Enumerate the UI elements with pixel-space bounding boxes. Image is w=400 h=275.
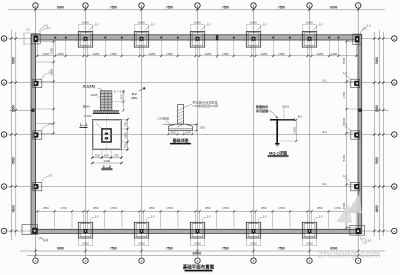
detail C right small dimension — [196, 124, 198, 130]
svg-text:1650: 1650 — [93, 52, 100, 56]
svg-text:1350: 1350 — [278, 52, 285, 56]
bottom inner chain extension line — [37, 211, 39, 229]
svg-text:J-2: J-2 — [95, 214, 99, 218]
svg-text:4800: 4800 — [375, 205, 379, 212]
svg-text:zhulong.com: zhulong.com — [318, 249, 381, 261]
top dimension tick — [84, 9, 86, 11]
bottom inner chain extension line — [251, 211, 253, 229]
svg-text:700: 700 — [124, 122, 128, 127]
axis bubble C left — [1, 132, 6, 137]
svg-text:J-2: J-2 — [207, 214, 211, 218]
grid row line C (horizontal) — [7, 82, 392, 84]
leader label J-2 bottom grid 5 — [258, 217, 262, 221]
svg-text:箍Φ8: 箍Φ8 — [83, 103, 90, 108]
svg-text:D: D — [3, 81, 5, 85]
axis bubble 7 bottom — [356, 258, 361, 263]
bottom dimension line (bay dims) — [20, 250, 385, 252]
left dimension line inner — [15, 32, 17, 236]
svg-text:B: B — [393, 185, 395, 189]
top inner chain extension line — [37, 40, 39, 57]
leader label J-1 top grid 1 — [39, 27, 44, 32]
svg-text:2400: 2400 — [138, 242, 145, 246]
left inner dimension chain line — [53, 40, 55, 134]
bottom inner chain extension line — [233, 211, 235, 229]
detail B center axis lines — [106, 117, 108, 153]
bottom dimension tick — [357, 250, 359, 252]
svg-text:J-2: J-2 — [150, 23, 154, 27]
leader label J-2 top grid 3 — [145, 26, 150, 31]
svg-text:J-1: J-1 — [367, 24, 371, 28]
bottom dimension tick — [34, 250, 36, 252]
bottom inner chain extension line — [104, 211, 106, 229]
axis bubble 7 top — [356, 3, 361, 8]
svg-text:4500: 4500 — [342, 57, 346, 64]
detail A footing pad under column — [94, 111, 119, 114]
leader label J-2 bottom grid 3 — [146, 217, 150, 221]
svg-text:J-2: J-2 — [262, 23, 266, 27]
svg-text:J-3: J-3 — [48, 174, 52, 178]
top inner chain extension line — [160, 40, 162, 57]
svg-text:6000: 6000 — [330, 6, 337, 10]
leader label left wall row B — [42, 125, 48, 130]
svg-text:4Φ25: 4Φ25 — [90, 93, 98, 97]
footing + column, top band grid 6 — [302, 31, 316, 47]
svg-text:1350: 1350 — [110, 52, 117, 56]
top inner chain extension line — [307, 40, 309, 57]
leader label J-1 top grid 7 — [362, 27, 367, 32]
bottom inner chain extension line — [345, 211, 347, 229]
svg-text:750: 750 — [114, 154, 119, 158]
bottom inner chain extension line — [355, 211, 357, 229]
leader dot at grid3 row C — [143, 87, 145, 89]
footing + column, bottom band grid 6 — [302, 222, 316, 238]
svg-text:2000: 2000 — [49, 47, 53, 54]
svg-text:J-1: J-1 — [363, 241, 367, 245]
top inner dimension chain line — [36, 55, 359, 57]
svg-text:1200: 1200 — [292, 127, 296, 134]
bottom inner chain extension line — [311, 211, 313, 229]
svg-text:J-3: J-3 — [48, 71, 52, 75]
bottom inner chain extension line — [83, 211, 85, 229]
grid line 5 (vertical axis) — [253, 9, 255, 259]
svg-text:J-2: J-2 — [94, 23, 98, 27]
svg-text:5100: 5100 — [342, 154, 346, 161]
top chain tick dot on band — [338, 37, 340, 39]
svg-text:900: 900 — [185, 130, 190, 134]
top footing mini dimension — [135, 23, 148, 25]
svg-text:A: A — [393, 229, 395, 233]
detail A right dimension — [122, 91, 124, 111]
svg-text:-1.500: -1.500 — [83, 114, 92, 118]
bottom inner chain extension line — [121, 211, 123, 229]
detail C annotation right leader texts — [183, 105, 192, 109]
corner footing grid1/top — [31, 34, 40, 44]
right dimension tick — [373, 185, 375, 187]
svg-text:J-2: J-2 — [319, 214, 323, 218]
svg-text:C10垫层: C10垫层 — [158, 116, 170, 121]
svg-text:J-2: J-2 — [318, 23, 322, 27]
svg-text:7500: 7500 — [278, 246, 285, 250]
leader label J-2 top grid 2 — [89, 26, 94, 31]
svg-text:详见结施: 详见结施 — [256, 108, 269, 113]
top dimension tick — [252, 9, 254, 11]
top inner chain extension line — [272, 40, 274, 57]
svg-text:300: 300 — [200, 126, 205, 130]
svg-text:1350: 1350 — [222, 52, 229, 56]
svg-text:2400: 2400 — [306, 242, 313, 246]
svg-text:1650: 1650 — [261, 52, 268, 56]
svg-text:500: 500 — [120, 94, 124, 99]
svg-text:7500: 7500 — [166, 246, 173, 250]
bottom foundation beam band — [31, 229, 362, 233]
svg-text:5500: 5500 — [12, 157, 16, 164]
top inner chain extension line — [328, 40, 330, 57]
svg-text:MQ-1详图: MQ-1详图 — [269, 150, 287, 156]
bottom inner chain extension line — [143, 211, 145, 229]
svg-text:39000: 39000 — [192, 252, 201, 256]
left dimension tick — [15, 185, 17, 187]
detail D vertical stem — [276, 120, 278, 144]
svg-text:2400: 2400 — [138, 20, 145, 24]
axis bubble E right — [392, 36, 397, 41]
svg-text:B: B — [3, 185, 5, 189]
bottom inner chain extension line — [54, 211, 56, 229]
svg-text:850: 850 — [93, 206, 98, 210]
top inner chain extension line — [355, 40, 357, 57]
top inner chain extension line — [139, 40, 141, 57]
leader label J-2 bottom grid 6 — [314, 217, 318, 221]
leader label right wall row B1 — [345, 178, 351, 183]
grid1 top leader 2x4 — [40, 28, 46, 32]
top chain tick dot on band — [104, 37, 106, 39]
left dimension tick — [15, 81, 17, 83]
mini dimension bracket below bottom footing grid 2 — [78, 237, 80, 246]
right dimension line 2 — [378, 30, 380, 240]
svg-text:J-2: J-2 — [151, 214, 155, 218]
axis bubble 6 bottom — [307, 258, 312, 263]
detail A right mini dimension top — [114, 91, 121, 93]
detail B right dimension line — [126, 120, 128, 150]
detail A: column elevation with crosshatch — [100, 91, 112, 111]
watermark logo shape — [347, 194, 362, 213]
axis bubble D right — [392, 80, 397, 85]
top inner chain extension line — [233, 40, 235, 57]
bottom dimension line (overall) — [27, 254, 380, 256]
svg-text:5500: 5500 — [375, 157, 379, 164]
right inner dimension chain line — [346, 40, 348, 229]
top inner chain extension line — [311, 40, 313, 57]
title underline — [185, 269, 213, 271]
bottom inner chain extension line — [199, 211, 201, 229]
svg-text:1700: 1700 — [278, 206, 285, 210]
top footing mini dimension — [247, 23, 260, 25]
top inner chain extension line — [104, 40, 106, 57]
bottom dimension tick — [196, 250, 198, 252]
svg-text:7500: 7500 — [110, 6, 117, 10]
footing + column, top band grid 4 — [190, 31, 204, 47]
corner footing grid1/bottom — [22, 225, 38, 235]
right foundation wall band — [358, 35, 362, 234]
bottom overall dim ticks — [34, 254, 36, 256]
svg-text:J-1: J-1 — [46, 26, 50, 30]
side footing left wall row C — [33, 79, 42, 87]
right dimension tick — [373, 81, 375, 83]
grid row line B1 (horizontal) — [7, 186, 392, 188]
detail B inner column rect (bold) — [102, 129, 111, 142]
svg-text:JL1: JL1 — [322, 130, 327, 134]
svg-text:J-2: J-2 — [263, 214, 267, 218]
svg-text:7500: 7500 — [222, 246, 229, 250]
right dimension tick — [373, 133, 375, 135]
bottom inner chain extension line — [177, 211, 179, 229]
svg-text:850: 850 — [205, 206, 210, 210]
corner footing grid7/top — [353, 34, 362, 44]
grid line 3 (vertical axis) — [141, 9, 143, 259]
svg-text:750: 750 — [95, 154, 100, 158]
detail D stem foot — [275, 143, 280, 145]
bottom inner chain extension line — [255, 211, 257, 229]
svg-text:1350: 1350 — [57, 52, 64, 56]
side footing right wall row B1 — [351, 182, 360, 190]
left dimension tick — [15, 230, 17, 232]
svg-text:2400: 2400 — [194, 20, 201, 24]
grid line 7 (vertical axis) — [357, 9, 359, 259]
svg-text:7500: 7500 — [278, 6, 285, 10]
detail B diagonal corner leader — [96, 123, 102, 129]
footing + column, bottom band grid 4 — [190, 222, 204, 238]
top chain tick dot on band — [289, 37, 291, 39]
svg-text:JL1: JL1 — [322, 182, 327, 186]
axis bubble 2 top — [83, 3, 88, 8]
axis bubble A right — [392, 228, 397, 233]
svg-text:J-1: J-1 — [44, 238, 48, 242]
svg-text:2400: 2400 — [250, 20, 257, 24]
footing + column, bottom band grid 2 — [78, 222, 92, 238]
svg-text:JL1(2A): JL1(2A) — [83, 84, 95, 88]
svg-text:基础平面布置图: 基础平面布置图 — [183, 263, 215, 270]
svg-text:2J: 2J — [26, 28, 30, 32]
svg-text:5000: 5000 — [375, 57, 379, 64]
detail C: footing section column with hatch — [178, 105, 184, 127]
grid row line B (horizontal) — [7, 134, 392, 136]
svg-text:J-3: J-3 — [343, 122, 347, 126]
leader label left wall row C — [42, 74, 48, 79]
svg-text:850: 850 — [317, 206, 322, 210]
svg-text:2400: 2400 — [250, 242, 257, 246]
svg-text:1650: 1650 — [205, 52, 212, 56]
leader label J-2 top grid 4 — [201, 26, 206, 31]
svg-text:1650: 1650 — [149, 52, 156, 56]
side footing right wall row C — [351, 79, 360, 87]
footing + column, bottom band grid 5 — [246, 222, 260, 238]
svg-text:7500: 7500 — [166, 6, 173, 10]
mini dimension bracket below bottom footing grid 5 — [246, 237, 248, 246]
svg-text:1—1: 1—1 — [80, 123, 88, 127]
mini dimension bracket below bottom footing grid 6 — [302, 237, 304, 246]
top dimension line — [8, 9, 385, 11]
svg-text:2400: 2400 — [194, 242, 201, 246]
bottom dimension tick — [84, 250, 86, 252]
top dimension tick — [34, 9, 36, 11]
svg-text:1700: 1700 — [110, 206, 117, 210]
detail D leader arrow — [268, 111, 277, 119]
axis bubble 3 bottom — [139, 258, 144, 263]
left dimension line outer — [10, 30, 12, 240]
top footing mini dimension — [79, 23, 92, 25]
left dimension tick — [15, 133, 17, 135]
top inner chain extension line — [195, 40, 197, 57]
svg-text:2—2: 2—2 — [102, 164, 111, 169]
svg-text:850: 850 — [261, 206, 266, 210]
right dimension mid tick at row M — [378, 109, 380, 111]
top inner chain extension line — [54, 40, 56, 57]
axis bubble 4 bottom — [195, 258, 200, 263]
top inner chain extension line — [87, 40, 89, 57]
top footing mini dimension — [303, 23, 316, 25]
svg-text:(2A): (2A) — [132, 96, 138, 100]
top chain tick dot on band — [121, 37, 123, 39]
leader label J-2 bottom grid 2 — [90, 217, 94, 221]
grid line 2 (vertical axis) — [85, 9, 87, 259]
svg-text:A: A — [3, 229, 5, 233]
bottom inner chain extension line — [216, 211, 218, 229]
detail D horizontal top bar — [271, 119, 295, 121]
svg-text:2400: 2400 — [82, 242, 89, 246]
bottom dimension tick — [252, 250, 254, 252]
left foundation wall band — [31, 35, 36, 234]
svg-text:J-2: J-2 — [206, 23, 210, 27]
svg-text:1000: 1000 — [124, 132, 128, 139]
svg-text:850: 850 — [149, 206, 154, 210]
axis bubble 4 top — [195, 3, 200, 8]
svg-text:2400: 2400 — [82, 20, 89, 24]
svg-text:1700: 1700 — [334, 206, 341, 210]
bottom inner chain extension line — [160, 211, 162, 229]
svg-text:1350: 1350 — [331, 52, 338, 56]
top chain tick dot on band — [177, 37, 179, 39]
detail B: footing plan outer square — [92, 120, 121, 150]
footing + column, bottom band grid 3 — [134, 222, 148, 238]
svg-text:C: C — [393, 133, 395, 137]
bottom dimension tick — [308, 250, 310, 252]
top chain tick dot on band — [54, 37, 56, 39]
svg-text:J-3: J-3 — [343, 174, 347, 178]
svg-text:JL1: JL1 — [322, 78, 327, 82]
grid row line D stub to bubbles — [7, 38, 31, 40]
right dimension line 3 — [382, 32, 384, 236]
grid line 6 (vertical axis) — [309, 9, 311, 259]
leader label J-1 bottom grid 7 — [362, 238, 367, 242]
svg-text:C15素砼垫层100厚: C15素砼垫层100厚 — [193, 103, 219, 108]
svg-text:4800: 4800 — [12, 205, 16, 212]
axis bubble C right — [392, 132, 397, 137]
bottom inner chain extension line — [307, 211, 309, 229]
svg-text:6000: 6000 — [57, 6, 64, 10]
side footing left wall row B — [33, 131, 42, 139]
left wall tick at mid row — [31, 109, 34, 112]
top chain tick dot on band — [272, 37, 274, 39]
svg-text:J-1: J-1 — [363, 27, 367, 31]
grid line 4 (vertical axis) — [197, 9, 199, 259]
bottom inner dimension chain line — [36, 210, 359, 212]
svg-text:1700: 1700 — [60, 206, 67, 210]
leader label right wall row C — [345, 75, 351, 80]
axis bubble 6 top — [307, 3, 312, 8]
top foundation beam band — [31, 35, 362, 40]
axis bubble 1 top — [33, 3, 38, 8]
detail D right dimension — [295, 120, 297, 141]
right wall tick at mid row — [358, 109, 361, 112]
corner footing grid7/bottom — [350, 225, 365, 235]
grid row line A stub to bubbles — [7, 230, 31, 232]
section cut marker on top band — [216, 35, 218, 41]
top inner chain extension line — [177, 40, 179, 57]
svg-text:J-1: J-1 — [367, 239, 371, 243]
top chain tick dot on band — [216, 37, 218, 39]
svg-text:6000: 6000 — [57, 246, 64, 250]
top inner chain extension line — [121, 40, 123, 57]
axis bubble D left — [1, 80, 6, 85]
top inner chain extension line — [143, 40, 145, 57]
right dimension tick — [373, 230, 375, 232]
mini dimension bracket below bottom footing grid 4 — [190, 237, 192, 246]
svg-text:850: 850 — [43, 206, 48, 210]
svg-text:900: 900 — [104, 154, 109, 158]
top chain tick dot on band — [328, 37, 330, 39]
top chain tick dot on band — [233, 37, 235, 39]
svg-text:700: 700 — [124, 143, 128, 148]
top chain tick dot on band — [160, 37, 162, 39]
svg-text:2400: 2400 — [104, 159, 111, 163]
svg-text:基础详图: 基础详图 — [172, 137, 189, 143]
bottom inner chain extension line — [272, 211, 274, 229]
detail B bottom dimension lines — [92, 157, 121, 159]
svg-text:1700: 1700 — [222, 206, 229, 210]
footing + column, top band grid 5 — [246, 31, 260, 47]
svg-text:1700: 1700 — [166, 206, 173, 210]
detail C dimension below — [168, 133, 192, 135]
svg-text:4500: 4500 — [342, 202, 346, 209]
svg-text:1650: 1650 — [317, 52, 324, 56]
top dimension tick — [308, 9, 310, 11]
svg-text:D: D — [393, 81, 395, 85]
top dimension tick — [196, 9, 198, 11]
top chain tick dot on band — [65, 37, 67, 39]
svg-text:2Φ16: 2Φ16 — [282, 104, 290, 108]
leader label left wall row B1 — [42, 177, 48, 182]
grid row M stub right (outside wall) — [362, 110, 389, 112]
top inner chain extension line — [83, 40, 85, 57]
leader label bottom-left corner — [38, 237, 44, 240]
top dimension tick — [357, 9, 359, 11]
leader label right wall row B — [345, 126, 351, 131]
side footing right wall row B — [351, 131, 360, 139]
axis bubble A left — [1, 228, 6, 233]
top inner chain extension line — [338, 40, 340, 57]
svg-text:Φ4: Φ4 — [298, 115, 302, 119]
leader label J-1 bottom grid 1 — [40, 238, 45, 242]
axis bubble 2 bottom — [83, 258, 88, 263]
footing + column, top band grid 2 — [78, 31, 92, 47]
top inner chain extension line — [255, 40, 257, 57]
svg-text:2400: 2400 — [306, 20, 313, 24]
svg-text:900: 900 — [170, 130, 175, 134]
top dimension tick — [140, 9, 142, 11]
axis bubble E left — [1, 36, 6, 41]
top inner chain extension line — [65, 40, 67, 57]
axis bubble 1 bottom — [33, 258, 38, 263]
right dimension tick — [373, 37, 375, 39]
